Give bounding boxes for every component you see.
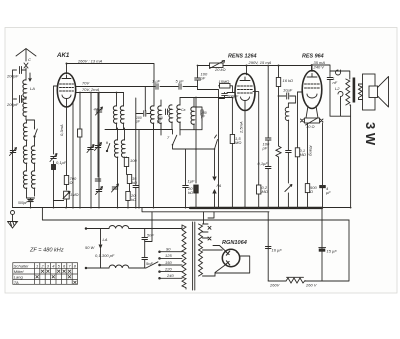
svg-text:Klang: Klang [309, 146, 314, 157]
svg-text:0,3mA: 0,3mA [59, 124, 64, 136]
svg-text:RGN1064: RGN1064 [222, 240, 248, 246]
svg-text:L2: L2 [335, 86, 340, 91]
svg-text:LA: LA [30, 86, 35, 91]
svg-text:240 V: 240 V [313, 65, 325, 70]
svg-text:C: C [28, 57, 31, 62]
svg-text:1 µF: 1 µF [152, 79, 161, 84]
svg-text:MΩ: MΩ [235, 140, 241, 145]
svg-text:kΩ: kΩ [188, 190, 193, 195]
svg-text:Schalter: Schalter [14, 263, 29, 268]
svg-text:LA: LA [103, 237, 108, 242]
svg-text:1µF: 1µF [188, 179, 196, 184]
svg-text:260V: 260V [269, 283, 280, 288]
svg-text:290V, 15 mA: 290V, 15 mA [248, 60, 272, 65]
svg-text:Ω: Ω [310, 189, 313, 194]
svg-text:5nF: 5nF [146, 261, 153, 266]
svg-text:Ca: Ca [181, 108, 185, 112]
svg-text:200pF: 200pF [6, 74, 19, 79]
svg-text:70V: 70V [82, 81, 89, 86]
svg-text:16 kΩ: 16 kΩ [283, 78, 294, 83]
svg-text:0,1-300 pF: 0,1-300 pF [95, 253, 115, 258]
svg-text:0,1µF: 0,1µF [56, 160, 67, 165]
svg-text:kΩ: kΩ [131, 197, 136, 202]
svg-text:5nF: 5nF [147, 233, 154, 238]
svg-text:16 µF: 16 µF [272, 248, 283, 253]
svg-text:FA: FA [217, 183, 222, 188]
svg-text:260 V: 260 V [305, 283, 317, 288]
svg-text:100: 100 [130, 158, 137, 163]
svg-text:240: 240 [166, 273, 174, 278]
svg-text:10 Ω: 10 Ω [306, 124, 315, 129]
svg-text:RENS 1264: RENS 1264 [228, 54, 256, 60]
svg-text:TA: TA [14, 280, 19, 285]
svg-text:150: 150 [165, 260, 172, 265]
svg-text:50 W: 50 W [85, 245, 96, 250]
svg-text:µF: µF [326, 190, 331, 195]
svg-text:10µF: 10µF [283, 88, 293, 93]
svg-text:260V : 13 mA: 260V : 13 mA [77, 59, 103, 64]
svg-text:2,5mA: 2,5mA [239, 121, 244, 134]
svg-text:Lang: Lang [14, 275, 24, 280]
svg-text:90: 90 [166, 247, 171, 252]
svg-text:Ω: Ω [70, 180, 73, 185]
svg-text:125: 125 [165, 253, 172, 258]
svg-text:200pF: 200pF [226, 94, 239, 99]
svg-text:MΩ: MΩ [262, 189, 268, 194]
svg-text:ZF = 480 kHz: ZF = 480 kHz [29, 248, 64, 254]
svg-text:3 W: 3 W [363, 122, 378, 146]
svg-text:AK1: AK1 [56, 52, 70, 59]
svg-text:500pF: 500pF [18, 201, 29, 205]
svg-text:20 kΩ: 20 kΩ [214, 67, 226, 72]
svg-text:pF: pF [200, 76, 206, 81]
svg-text:nF: nF [333, 80, 338, 85]
svg-text:Mittel: Mittel [14, 269, 24, 274]
svg-text:RES 964: RES 964 [302, 54, 324, 60]
svg-text:1: 1 [36, 263, 38, 268]
svg-text:220: 220 [164, 266, 172, 271]
svg-text:47: 47 [94, 107, 99, 112]
svg-text:MΩ: MΩ [300, 152, 306, 157]
svg-text:1MΩ: 1MΩ [70, 192, 79, 197]
svg-text:15 µF: 15 µF [327, 249, 338, 254]
svg-text:0,1µF: 0,1µF [258, 161, 269, 166]
svg-text:15MΩ: 15MΩ [219, 79, 230, 84]
svg-text:200pF: 200pF [6, 102, 19, 107]
svg-text:kΩ: kΩ [132, 180, 137, 185]
svg-text:pF: pF [262, 146, 268, 151]
svg-text:70V, 2mA: 70V, 2mA [82, 87, 100, 92]
svg-text:5 µF: 5 µF [176, 79, 185, 84]
